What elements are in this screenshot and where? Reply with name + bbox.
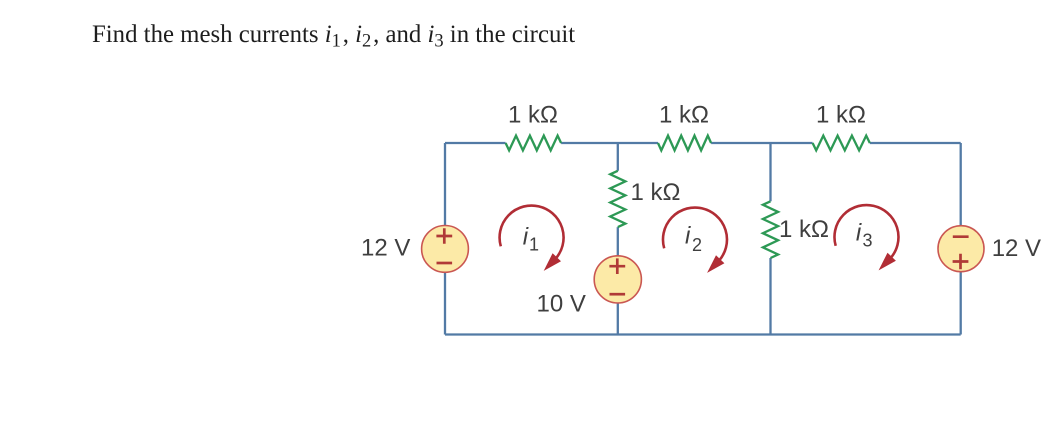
mesh current arrow i3 [834, 205, 898, 270]
svg-text:i: i [685, 223, 691, 250]
wire middle branch 2 lower [769, 258, 771, 335]
resistor R4 vertical middle branch 1 1k [610, 171, 625, 227]
resistor R2 top-middle 1k [658, 136, 711, 151]
mesh current arrow i2 [663, 208, 727, 273]
wire top segment between R2 and R3 [711, 142, 813, 144]
voltage source V3 12V right circle [938, 226, 984, 272]
wire middle branch 1 lower [617, 227, 619, 334]
svg-text:Find the mesh currents i1, i2,: Find the mesh currents i1, i2, and i3 in… [92, 21, 575, 52]
wire top segment right [870, 142, 961, 144]
resistor R1 top-left 1k [506, 136, 561, 151]
wire bottom [445, 333, 961, 335]
svg-text:1 kΩ: 1 kΩ [816, 102, 866, 129]
svg-text:1 kΩ: 1 kΩ [659, 102, 709, 129]
voltage source V2 10V middle circle [594, 256, 641, 303]
resistor R5 vertical middle branch 2 1k [763, 201, 778, 258]
wire left vertical [444, 143, 446, 335]
svg-text:1 kΩ: 1 kΩ [779, 216, 829, 243]
wire top segment left [445, 142, 506, 144]
svg-text:1 kΩ: 1 kΩ [508, 102, 558, 129]
svg-text:i: i [523, 223, 529, 250]
svg-text:12 V: 12 V [361, 235, 410, 262]
svg-text:1: 1 [529, 234, 539, 254]
wire right vertical [960, 143, 962, 335]
wire top segment between R1 and R2 [561, 142, 658, 144]
voltage source V1 12V left circle [422, 226, 469, 273]
mesh current arrow i1 [500, 206, 564, 271]
resistor R3 top-right 1k [813, 136, 870, 151]
svg-text:2: 2 [692, 235, 702, 255]
svg-text:10 V: 10 V [537, 291, 586, 318]
wire middle branch 1 upper [617, 143, 619, 171]
svg-text:3: 3 [863, 231, 873, 251]
svg-text:i: i [856, 220, 862, 247]
svg-text:12 V: 12 V [992, 235, 1041, 262]
svg-text:1 kΩ: 1 kΩ [631, 179, 681, 206]
wire middle branch 2 upper [769, 143, 771, 201]
